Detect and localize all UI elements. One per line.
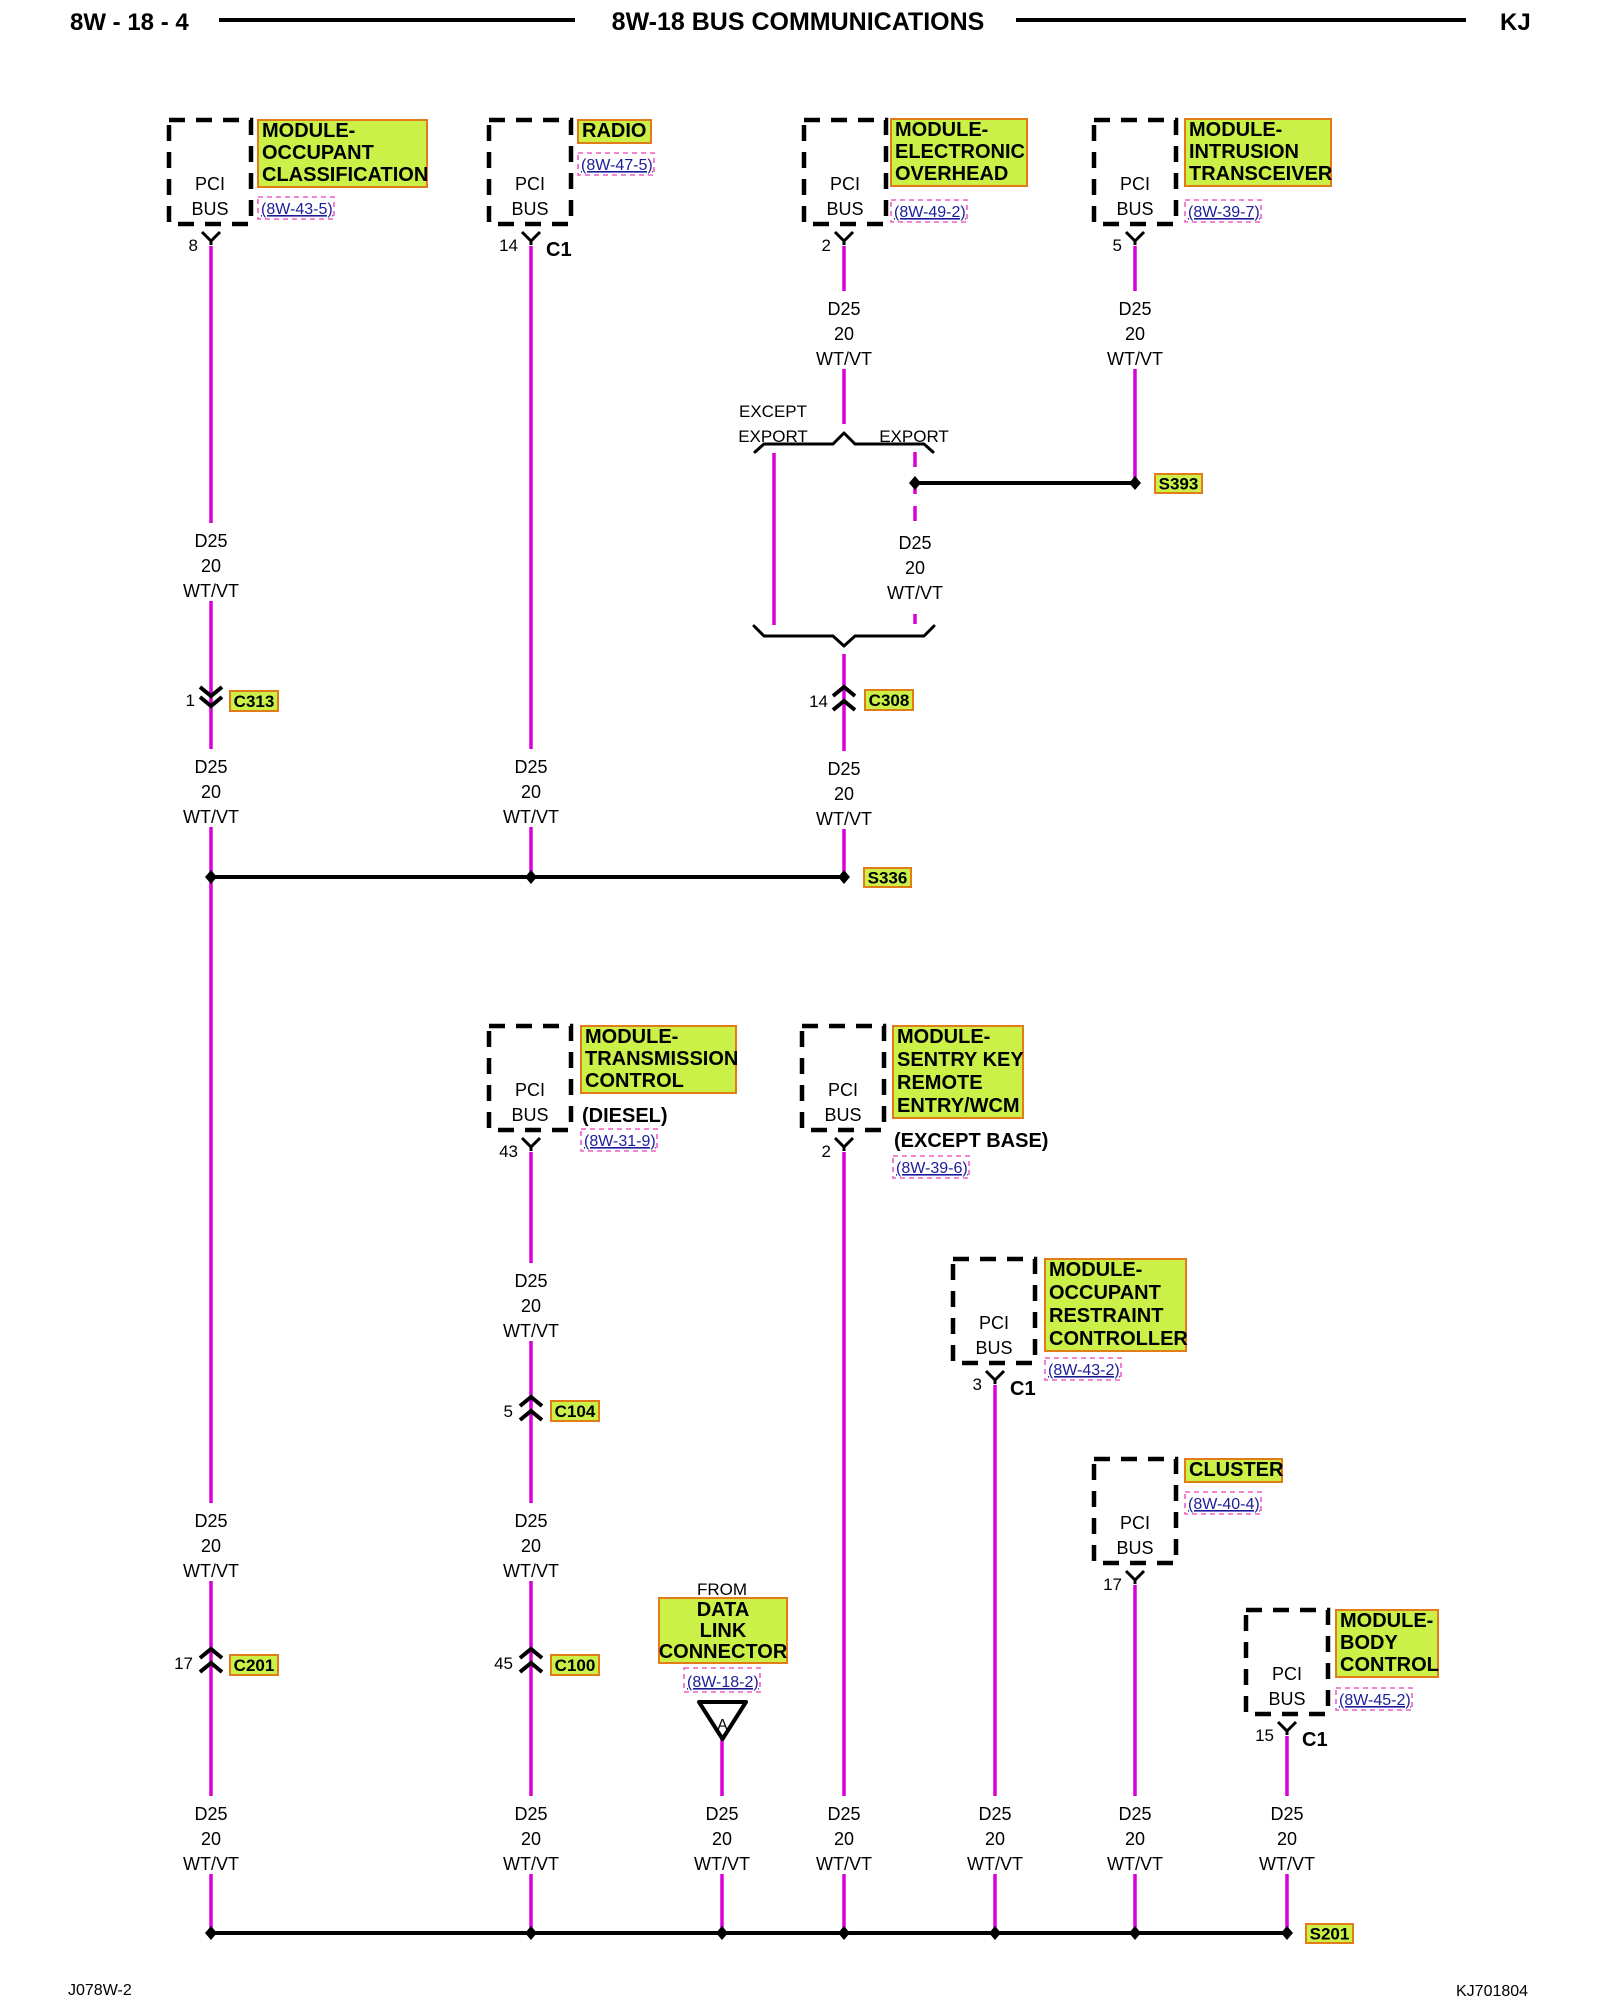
svg-text:PCI: PCI <box>979 1313 1009 1333</box>
wire label D25 20 WT/VT at x=211 y=1512 <box>182 1503 240 1581</box>
svg-text:BUS: BUS <box>824 1105 861 1125</box>
module U4 MODULE-INTRUSION TRANSCEIVER name label <box>1185 119 1333 186</box>
svg-text:(8W-18-2): (8W-18-2) <box>687 1674 759 1691</box>
svg-text:14: 14 <box>809 692 828 711</box>
svg-text:17: 17 <box>1103 1575 1122 1594</box>
wire label D25 20 WT/VT at x=722 y=1805 <box>693 1796 751 1874</box>
svg-text:17: 17 <box>174 1654 193 1673</box>
svg-text:BUS: BUS <box>1116 1538 1153 1558</box>
svg-text:A: A <box>717 1717 728 1734</box>
svg-text:ENTRY/WCM: ENTRY/WCM <box>897 1095 1020 1117</box>
svg-text:1: 1 <box>186 691 195 710</box>
svg-text:CONTROL: CONTROL <box>1340 1654 1439 1676</box>
module box U8 CLUSTER <box>1094 1459 1176 1563</box>
svg-text:20: 20 <box>201 782 221 802</box>
splice S393 bus line <box>915 481 1135 485</box>
junction dot S201 #1 <box>205 1926 217 1940</box>
module U4 MODULE-INTRUSION TRANSCEIVER pin connector (Y) <box>1126 232 1144 245</box>
svg-text:D25: D25 <box>1270 1804 1303 1824</box>
module U5 MODULE-TRANSMISSION CONTROL (DIESEL) name label <box>581 1026 738 1093</box>
svg-text:D25: D25 <box>514 757 547 777</box>
brace: merge of EXCEPT EXPORT / EXPORT branches <box>754 626 934 646</box>
splice label S201 <box>1306 1924 1353 1944</box>
module U3 MODULE-ELECTRONIC OVERHEAD name label <box>891 119 1027 186</box>
svg-text:PCI: PCI <box>828 1080 858 1100</box>
svg-text:WT/VT: WT/VT <box>816 1854 872 1874</box>
svg-text:D25: D25 <box>514 1804 547 1824</box>
svg-text:D25: D25 <box>194 757 227 777</box>
svg-text:TRANSMISSION: TRANSMISSION <box>585 1048 738 1070</box>
module box U4 MODULE-INTRUSION TRANSCEIVER <box>1094 120 1176 224</box>
svg-text:WT/VT: WT/VT <box>183 1561 239 1581</box>
svg-text:C313: C313 <box>234 692 275 711</box>
data link connector name label <box>659 1598 788 1663</box>
wire label D25 20 WT/VT at x=1135 y=1805 <box>1106 1796 1164 1874</box>
svg-text:C308: C308 <box>869 691 910 710</box>
svg-text:20: 20 <box>834 784 854 804</box>
module U6 MODULE-SENTRY KEY REMOTE ENTRY/WCM (EXCEPT BASE) name label <box>893 1026 1024 1118</box>
wire: PCI bus from occupant restraint controller pin 3 down to splice S201 <box>993 1385 997 1933</box>
svg-text:(8W-31-9): (8W-31-9) <box>584 1133 656 1150</box>
svg-text:D25: D25 <box>1118 299 1151 319</box>
junction dot S201 #4 <box>838 1926 850 1940</box>
connector C308 symbol (in-line, pin 14) <box>833 687 855 696</box>
connector C104 symbol (in-line, pin 5) <box>520 1397 542 1406</box>
connector C308 label <box>865 690 913 710</box>
svg-text:J078W-2: J078W-2 <box>68 1982 132 1999</box>
svg-text:PCI: PCI <box>1120 1513 1150 1533</box>
svg-text:CONTROLLER: CONTROLLER <box>1049 1328 1188 1350</box>
svg-text:D25: D25 <box>705 1804 738 1824</box>
svg-text:S393: S393 <box>1159 475 1199 494</box>
wire: except-export branch (left) between braces <box>772 453 776 625</box>
svg-text:20: 20 <box>521 782 541 802</box>
svg-text:KJ: KJ <box>1500 9 1531 36</box>
svg-text:EXPORT: EXPORT <box>738 427 808 446</box>
svg-text:MODULE-: MODULE- <box>897 1026 990 1048</box>
svg-text:WT/VT: WT/VT <box>503 1561 559 1581</box>
module U9 MODULE-BODY CONTROL PCI BUS text <box>1268 1664 1305 1709</box>
label EXCEPT EXPORT (left branch) <box>738 402 808 446</box>
svg-text:D25: D25 <box>1118 1804 1151 1824</box>
svg-text:WT/VT: WT/VT <box>1107 1854 1163 1874</box>
svg-text:KJ701804: KJ701804 <box>1456 1983 1528 2000</box>
svg-text:(8W-45-2): (8W-45-2) <box>1339 1692 1411 1709</box>
svg-text:D25: D25 <box>827 1804 860 1824</box>
svg-text:RESTRAINT: RESTRAINT <box>1049 1305 1163 1327</box>
wire: PCI bus from sentry key module pin 2 down to splice S201 <box>842 1152 846 1933</box>
svg-text:CONNECTOR: CONNECTOR <box>659 1641 788 1663</box>
module U6 MODULE-SENTRY KEY REMOTE ENTRY/WCM (EXCEPT BASE) page link (8W-39-6) <box>893 1156 969 1178</box>
wire label D25 20 WT/VT at x=844 y=300 <box>815 291 873 369</box>
svg-text:20: 20 <box>834 324 854 344</box>
module U7 MODULE-OCCUPANT RESTRAINT CONTROLLER pin connector (Y) <box>986 1371 1004 1384</box>
svg-text:D25: D25 <box>978 1804 1011 1824</box>
module U8 CLUSTER page link (8W-40-4) <box>1185 1492 1261 1514</box>
svg-text:(8W-43-5): (8W-43-5) <box>261 201 333 218</box>
wire: PCI bus from splice S336 down through C201 to splice S201 <box>209 877 213 1933</box>
svg-text:(DIESEL): (DIESEL) <box>582 1105 668 1127</box>
wire: PCI bus from cluster pin 17 down to splice S201 <box>1133 1585 1137 1933</box>
module U5 MODULE-TRANSMISSION CONTROL (DIESEL) page link (8W-31-9) <box>581 1129 657 1151</box>
module U8 CLUSTER PCI BUS text <box>1116 1513 1153 1558</box>
wire: PCI bus from transmission control module pin 43 through C104 and C100 to splice S201 <box>529 1152 533 1933</box>
module U4 MODULE-INTRUSION TRANSCEIVER PCI BUS text <box>1116 174 1153 219</box>
svg-text:S201: S201 <box>1310 1925 1350 1944</box>
svg-text:BUS: BUS <box>191 199 228 219</box>
svg-text:(8W-49-2): (8W-49-2) <box>894 204 966 221</box>
svg-text:PCI: PCI <box>515 174 545 194</box>
svg-text:2: 2 <box>822 236 831 255</box>
splice label S336 <box>864 868 911 888</box>
svg-text:PCI: PCI <box>1120 174 1150 194</box>
svg-text:(8W-39-6): (8W-39-6) <box>896 1160 968 1177</box>
connector C313 symbol (in-line, pin 1) <box>200 687 222 696</box>
svg-text:WT/VT: WT/VT <box>503 807 559 827</box>
wire: merged PCI bus from brace through C308 to splice S336 <box>842 654 846 877</box>
wire label D25 20 WT/VT at x=211 y=532 <box>182 523 240 601</box>
svg-text:20: 20 <box>201 556 221 576</box>
svg-text:20: 20 <box>201 1536 221 1556</box>
svg-text:WT/VT: WT/VT <box>1107 349 1163 369</box>
svg-text:BUS: BUS <box>511 199 548 219</box>
svg-text:20: 20 <box>521 1296 541 1316</box>
junction dot S201 #3 <box>716 1926 728 1940</box>
wire: PCI bus from radio pin 14 down to splice S336 <box>529 246 533 877</box>
connector C100 label <box>551 1655 599 1675</box>
svg-text:TRANSCEIVER: TRANSCEIVER <box>1189 163 1333 185</box>
svg-text:PCI: PCI <box>195 174 225 194</box>
svg-text:OCCUPANT: OCCUPANT <box>1049 1282 1161 1304</box>
svg-text:WT/VT: WT/VT <box>1259 1854 1315 1874</box>
svg-text:WT/VT: WT/VT <box>183 1854 239 1874</box>
svg-text:D25: D25 <box>827 299 860 319</box>
svg-text:2: 2 <box>822 1142 831 1161</box>
wire label D25 20 WT/VT at x=915 y=534 <box>886 525 944 603</box>
module U6 MODULE-SENTRY KEY REMOTE ENTRY/WCM (EXCEPT BASE) PCI BUS text <box>824 1080 861 1125</box>
svg-text:8W - 18 - 4: 8W - 18 - 4 <box>70 9 189 36</box>
svg-text:(EXCEPT BASE): (EXCEPT BASE) <box>894 1130 1048 1152</box>
module U5 MODULE-TRANSMISSION CONTROL (DIESEL) pin connector (Y) <box>522 1138 540 1151</box>
wire label D25 20 WT/VT at x=844 y=760 <box>815 751 873 829</box>
header rule right <box>1016 18 1466 22</box>
svg-text:8: 8 <box>189 236 198 255</box>
svg-text:20: 20 <box>1277 1829 1297 1849</box>
module U3 MODULE-ELECTRONIC OVERHEAD PCI BUS text <box>826 174 863 219</box>
svg-text:D25: D25 <box>194 1804 227 1824</box>
wire: PCI bus from occupant classification module pin 8 down to splice S336 <box>209 246 213 877</box>
module U8 CLUSTER pin connector (Y) <box>1126 1571 1144 1584</box>
svg-text:20: 20 <box>985 1829 1005 1849</box>
svg-text:20: 20 <box>521 1536 541 1556</box>
svg-text:OVERHEAD: OVERHEAD <box>895 163 1008 185</box>
module U1 MODULE-OCCUPANT CLASSIFICATION PCI BUS text <box>191 174 228 219</box>
svg-text:WT/VT: WT/VT <box>183 581 239 601</box>
splice label S393 <box>1155 474 1202 494</box>
connector C201 symbol (in-line, pin 17) <box>200 1649 222 1658</box>
junction dot S201 #5 <box>989 1926 1001 1940</box>
module U9 MODULE-BODY CONTROL name label <box>1336 1610 1439 1677</box>
wire label D25 20 WT/VT at x=995 y=1805 <box>966 1796 1024 1874</box>
data link connector page link (8W-18-2) <box>684 1668 760 1692</box>
junction dot S201 #6 <box>1129 1926 1141 1940</box>
module U7 MODULE-OCCUPANT RESTRAINT CONTROLLER page link (8W-43-2) <box>1045 1358 1121 1380</box>
data link connector off-page triangle A <box>699 1702 746 1739</box>
svg-text:D25: D25 <box>514 1271 547 1291</box>
svg-text:5: 5 <box>1113 236 1122 255</box>
connector C104 label <box>551 1401 599 1421</box>
svg-text:EXCEPT: EXCEPT <box>739 402 807 421</box>
svg-text:WT/VT: WT/VT <box>816 349 872 369</box>
svg-text:BUS: BUS <box>511 1105 548 1125</box>
svg-text:15: 15 <box>1255 1726 1274 1745</box>
svg-text:C100: C100 <box>555 1656 596 1675</box>
svg-text:INTRUSION: INTRUSION <box>1189 141 1299 163</box>
svg-text:EXPORT: EXPORT <box>879 427 949 446</box>
module U2 RADIO name label <box>578 120 651 143</box>
brace: split to EXCEPT EXPORT / EXPORT branches <box>755 433 933 452</box>
svg-text:C104: C104 <box>555 1402 596 1421</box>
svg-text:WT/VT: WT/VT <box>694 1854 750 1874</box>
svg-text:DATA: DATA <box>697 1599 750 1621</box>
svg-text:LINK: LINK <box>700 1620 747 1642</box>
svg-text:MODULE-: MODULE- <box>895 119 988 141</box>
wire: PCI bus from body control module pin 15 down to splice S201 <box>1285 1736 1289 1933</box>
wire: PCI bus from intrusion transceiver pin 5 down to splice S393 <box>1133 246 1137 479</box>
svg-text:(8W-40-4): (8W-40-4) <box>1188 1496 1260 1513</box>
module U1 MODULE-OCCUPANT CLASSIFICATION page link (8W-43-5) <box>258 197 334 219</box>
wire label D25 20 WT/VT at x=531 y=1805 <box>502 1796 560 1874</box>
module U1 MODULE-OCCUPANT CLASSIFICATION pin connector (Y) <box>202 232 220 245</box>
svg-text:S336: S336 <box>868 869 908 888</box>
svg-text:ELECTRONIC: ELECTRONIC <box>895 141 1025 163</box>
junction dot S393 right <box>1129 476 1141 490</box>
splice S201 bus line <box>211 1931 1287 1935</box>
svg-text:BUS: BUS <box>975 1338 1012 1358</box>
module box U9 MODULE-BODY CONTROL <box>1246 1610 1328 1714</box>
svg-text:CONTROL: CONTROL <box>585 1070 684 1092</box>
module U1 MODULE-OCCUPANT CLASSIFICATION name label <box>258 120 428 187</box>
module U6 MODULE-SENTRY KEY REMOTE ENTRY/WCM (EXCEPT BASE) pin connector (Y) <box>835 1138 853 1151</box>
module U9 MODULE-BODY CONTROL page link (8W-45-2) <box>1336 1688 1412 1710</box>
svg-text:5: 5 <box>504 1402 513 1421</box>
wire label D25 20 WT/VT at x=1287 y=1805 <box>1258 1796 1316 1874</box>
wire: PCI bus from data link connector A down to splice S201 <box>720 1739 724 1933</box>
module box U3 MODULE-ELECTRONIC OVERHEAD <box>804 120 886 224</box>
svg-text:C1: C1 <box>1302 1729 1328 1751</box>
svg-text:43: 43 <box>499 1142 518 1161</box>
wire label D25 20 WT/VT at x=531 y=1272 <box>502 1263 560 1341</box>
module box U5 MODULE-TRANSMISSION CONTROL (DIESEL) <box>489 1026 571 1130</box>
wire label D25 20 WT/VT at x=844 y=1805 <box>815 1796 873 1874</box>
svg-text:8W-18 BUS COMMUNICATIONS: 8W-18 BUS COMMUNICATIONS <box>612 8 985 36</box>
svg-text:MODULE-: MODULE- <box>1189 119 1282 141</box>
svg-text:20: 20 <box>521 1829 541 1849</box>
svg-text:CLASSIFICATION: CLASSIFICATION <box>262 164 428 186</box>
svg-text:20: 20 <box>201 1829 221 1849</box>
module box U7 MODULE-OCCUPANT RESTRAINT CONTROLLER <box>953 1259 1035 1363</box>
module box U6 MODULE-SENTRY KEY REMOTE ENTRY/WCM (EXCEPT BASE) <box>802 1026 884 1130</box>
svg-text:WT/VT: WT/VT <box>503 1321 559 1341</box>
svg-text:C201: C201 <box>234 1656 275 1675</box>
junction dot S336 middle <box>525 870 537 884</box>
svg-text:WT/VT: WT/VT <box>503 1854 559 1874</box>
svg-text:WT/VT: WT/VT <box>967 1854 1023 1874</box>
wire: export branch (right, dashed) through splice S393 <box>913 452 917 624</box>
wire label D25 20 WT/VT at x=211 y=758 <box>182 749 240 827</box>
module box U1 MODULE-OCCUPANT CLASSIFICATION <box>169 120 251 224</box>
svg-text:D25: D25 <box>827 759 860 779</box>
svg-text:(8W-43-2): (8W-43-2) <box>1048 1362 1120 1379</box>
svg-text:45: 45 <box>494 1654 513 1673</box>
svg-text:PCI: PCI <box>515 1080 545 1100</box>
svg-text:PCI: PCI <box>1272 1664 1302 1684</box>
module U3 MODULE-ELECTRONIC OVERHEAD pin connector (Y) <box>835 232 853 245</box>
module U7 MODULE-OCCUPANT RESTRAINT CONTROLLER PCI BUS text <box>975 1313 1012 1358</box>
module U9 MODULE-BODY CONTROL pin connector (Y) <box>1278 1722 1296 1735</box>
module U7 MODULE-OCCUPANT RESTRAINT CONTROLLER name label <box>1045 1259 1188 1351</box>
module U5 MODULE-TRANSMISSION CONTROL (DIESEL) PCI BUS text <box>511 1080 548 1125</box>
svg-text:BUS: BUS <box>1268 1689 1305 1709</box>
wire label D25 20 WT/VT at x=211 y=1805 <box>182 1796 240 1874</box>
svg-text:D25: D25 <box>194 1511 227 1531</box>
module U8 CLUSTER name label <box>1185 1459 1284 1482</box>
svg-text:20: 20 <box>834 1829 854 1849</box>
svg-text:20: 20 <box>905 558 925 578</box>
svg-text:MODULE-: MODULE- <box>1049 1259 1142 1281</box>
connector C201 label <box>230 1655 278 1675</box>
svg-text:C1: C1 <box>546 239 572 261</box>
svg-text:BODY: BODY <box>1340 1632 1398 1654</box>
splice S336 bus line <box>211 875 844 879</box>
svg-text:14: 14 <box>499 236 518 255</box>
svg-text:D25: D25 <box>898 533 931 553</box>
svg-text:BUS: BUS <box>826 199 863 219</box>
svg-text:OCCUPANT: OCCUPANT <box>262 142 374 164</box>
module U2 RADIO pin connector (Y) <box>522 232 540 245</box>
wire label D25 20 WT/VT at x=531 y=758 <box>502 749 560 827</box>
junction dot S393 left <box>909 476 921 490</box>
svg-text:C1: C1 <box>1010 1378 1036 1400</box>
junction dot S336 left <box>205 870 217 884</box>
module U3 MODULE-ELECTRONIC OVERHEAD page link (8W-49-2) <box>891 200 967 222</box>
connector C313 label <box>230 691 278 711</box>
svg-text:FROM: FROM <box>697 1580 747 1599</box>
module U4 MODULE-INTRUSION TRANSCEIVER page link (8W-39-7) <box>1185 200 1261 222</box>
svg-text:D25: D25 <box>514 1511 547 1531</box>
svg-text:20: 20 <box>1125 1829 1145 1849</box>
svg-text:MODULE-: MODULE- <box>585 1026 678 1048</box>
connector C100 symbol (in-line, pin 45) <box>520 1649 542 1658</box>
module U2 RADIO page link (8W-47-5) <box>578 153 654 175</box>
svg-text:WT/VT: WT/VT <box>816 809 872 829</box>
svg-text:CLUSTER: CLUSTER <box>1189 1459 1284 1481</box>
module U2 RADIO PCI BUS text <box>511 174 548 219</box>
svg-text:RADIO: RADIO <box>582 120 646 142</box>
svg-text:20: 20 <box>712 1829 732 1849</box>
svg-text:MODULE-: MODULE- <box>1340 1610 1433 1632</box>
header rule left <box>219 18 575 22</box>
svg-text:20: 20 <box>1125 324 1145 344</box>
svg-text:WT/VT: WT/VT <box>887 583 943 603</box>
svg-text:PCI: PCI <box>830 174 860 194</box>
svg-text:(8W-47-5): (8W-47-5) <box>581 157 653 174</box>
junction dot S201 #2 <box>525 1926 537 1940</box>
junction dot S336 right <box>838 870 850 884</box>
svg-text:3: 3 <box>973 1375 982 1394</box>
svg-text:MODULE-: MODULE- <box>262 120 355 142</box>
svg-text:REMOTE: REMOTE <box>897 1072 983 1094</box>
junction dot S201 #7 <box>1281 1926 1293 1940</box>
svg-text:(8W-39-7): (8W-39-7) <box>1188 204 1260 221</box>
wire label D25 20 WT/VT at x=1135 y=300 <box>1106 291 1164 369</box>
wire: PCI bus from electronic overhead module pin 2 down to except-export brace <box>842 246 846 424</box>
svg-text:SENTRY KEY: SENTRY KEY <box>897 1049 1024 1071</box>
svg-text:D25: D25 <box>194 531 227 551</box>
wire label D25 20 WT/VT at x=531 y=1512 <box>502 1503 560 1581</box>
svg-text:BUS: BUS <box>1116 199 1153 219</box>
module box U2 RADIO <box>489 120 571 224</box>
svg-text:WT/VT: WT/VT <box>183 807 239 827</box>
